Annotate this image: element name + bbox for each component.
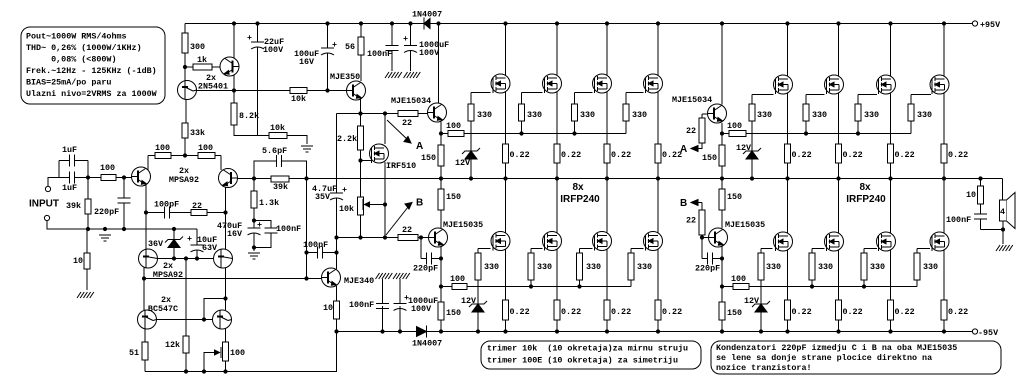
capacitor 1uF top	[62, 145, 77, 167]
mosfet IRFP240 f7	[593, 232, 612, 251]
resistor 0.22 f2	[554, 144, 581, 163]
svg-text:trimer 100E (10 okretaja) za s: trimer 100E (10 okretaja) za simetriju	[487, 355, 678, 365]
capacitor 220pF mje15035-1	[413, 252, 438, 274]
junction irf gate	[358, 158, 362, 162]
wire source f12 / 0.22	[943, 93, 945, 179]
junction bottom rail	[836, 329, 840, 333]
svg-text:330: 330	[484, 262, 499, 272]
capacitor 100pF ltp	[154, 200, 179, 220]
svg-text:10: 10	[966, 190, 976, 200]
svg-text:100: 100	[100, 163, 115, 173]
wire gate lead f15	[864, 248, 877, 250]
wire trimmer100 wiper	[204, 353, 220, 372]
wire drain f9	[787, 24, 789, 77]
wire 22uF column	[257, 24, 259, 136]
resistor 0.22 f11	[888, 144, 915, 163]
wire MJE15035-2 base lead	[702, 237, 708, 239]
zener 36V	[148, 237, 183, 250]
resistor 330 gate f13	[758, 253, 781, 280]
ground 1000uF rail- (above)	[393, 273, 410, 279]
mosfet IRFP240 f5	[491, 232, 510, 251]
junction zener36 bot	[172, 256, 176, 260]
resistor 330 gate f7	[577, 253, 602, 280]
wire zobel link	[981, 229, 1004, 231]
junction B line	[334, 235, 338, 239]
resistor 12k	[165, 336, 189, 353]
svg-text:Frek.~12Hz - 125KHz (-1dB): Frek.~12Hz - 125KHz (-1dB)	[26, 66, 157, 76]
junction 100pF left	[304, 250, 308, 254]
capacitor 100nF fb	[264, 224, 301, 234]
svg-text:150: 150	[446, 192, 461, 202]
wire speaker top	[1002, 179, 1004, 201]
resistor 0.22 f15	[888, 300, 915, 320]
transistor Q3 MPSA92 upper-left	[132, 166, 200, 186]
svg-text:0.22: 0.22	[895, 307, 915, 317]
svg-text:36V: 36V	[148, 239, 164, 249]
wire 8.2k column	[234, 91, 258, 136]
zener 12V ul	[455, 148, 480, 168]
wire MJE15034-1 collector	[438, 24, 440, 104]
svg-text:+: +	[403, 34, 408, 44]
wire source f10 / 0.22	[838, 93, 840, 179]
svg-text:0,08% (<800W): 0,08% (<800W)	[26, 55, 116, 65]
wire drain f13	[787, 179, 789, 234]
wire gnd stub 470uF	[253, 248, 255, 251]
svg-text:330: 330	[917, 110, 932, 120]
transistor Q6 MPSA92 lower-right	[214, 249, 233, 268]
resistor 39k input	[66, 199, 91, 214]
resistor 330 gate f10	[803, 104, 827, 121]
svg-text:0.22: 0.22	[561, 307, 581, 317]
resistor 330 gate f12	[908, 104, 932, 121]
junction output bus	[836, 176, 840, 180]
svg-text:150: 150	[446, 308, 461, 318]
resistor 150 mje15034-1	[421, 145, 444, 166]
resistor 1k	[193, 55, 212, 70]
resistor 330 gate f2	[519, 104, 543, 121]
wire B diagonal	[386, 205, 410, 236]
info box specs	[21, 27, 165, 104]
svg-text:MPSA92: MPSA92	[153, 270, 183, 280]
wire source f16 / 0.22	[943, 250, 945, 332]
svg-text:12V: 12V	[455, 158, 471, 168]
note box capacitors	[711, 341, 1001, 374]
svg-text:100: 100	[155, 143, 170, 153]
wire 1k feed	[185, 66, 220, 68]
wire gnd stub 1000uF rail+	[410, 50, 412, 71]
svg-text:-95V: -95V	[978, 328, 999, 338]
resistor 0.22 f14	[836, 300, 863, 320]
junction 220pF top	[122, 175, 126, 179]
resistor 0.22 f10	[836, 144, 863, 163]
transistor Q7 BC547C left	[138, 295, 179, 329]
junction gate bus ll	[529, 284, 533, 288]
wire gate lead f4	[626, 92, 644, 94]
wire gate res4 col	[625, 93, 627, 134]
wire drain f1	[505, 24, 507, 76]
transistor MJE15035 #2	[709, 220, 766, 247]
resistor 2.2k	[337, 126, 364, 150]
svg-text:nozice tranzistora!: nozice tranzistora!	[716, 363, 812, 373]
svg-text:330: 330	[766, 262, 781, 272]
resistor 330 gate f3	[572, 104, 596, 121]
resistor 22 B-line	[398, 225, 418, 241]
resistor 0.22 f9	[785, 144, 812, 163]
svg-text:0.22: 0.22	[510, 307, 530, 317]
wire LTP load line y155	[148, 155, 221, 157]
wire VAS collector col	[336, 238, 338, 270]
resistor 1.3k	[251, 191, 279, 208]
wire gate bus upper-left	[471, 133, 626, 135]
wire drain f12	[943, 24, 945, 77]
wire 1.3k column	[253, 179, 255, 248]
junction output bus	[656, 176, 660, 180]
junction gate bus ul	[519, 131, 523, 135]
svg-text:220pF: 220pF	[695, 264, 720, 274]
svg-text:se lene sa donje strane plocic: se lene sa donje strane plocice direktno…	[716, 353, 932, 363]
mosfet IRFP240 f2	[543, 74, 562, 93]
svg-text:330: 330	[637, 262, 652, 272]
junction output bus	[469, 176, 473, 180]
wire 10R input col	[86, 229, 88, 290]
wire dash +95V	[968, 23, 972, 25]
wire source f3 / 0.22	[606, 92, 608, 179]
diode 1N4007 rail-	[412, 326, 442, 349]
svg-text:10k: 10k	[270, 123, 285, 133]
svg-text:MJE340: MJE340	[344, 276, 374, 286]
wire 10uF column	[196, 229, 198, 259]
svg-text:0.22: 0.22	[843, 307, 863, 317]
svg-text:1.3k: 1.3k	[259, 198, 279, 208]
transistor Q2 2N5401 lower	[178, 81, 197, 100]
svg-text:100: 100	[727, 121, 742, 131]
capacitor 220pF input	[94, 198, 131, 217]
resistor 0.22 f8	[655, 300, 682, 320]
wire source f13 / 0.22	[787, 250, 789, 332]
svg-text:330: 330	[527, 110, 542, 120]
junction irf source wiper	[383, 202, 387, 206]
junction top rail	[390, 21, 394, 25]
resistor 0.22 f13	[785, 300, 812, 320]
wire bias trimmer column	[360, 161, 362, 238]
wire gate lead f2	[522, 92, 543, 94]
wire output bus	[254, 178, 1003, 180]
svg-text:33k: 33k	[190, 128, 205, 138]
wire IRF510 source col	[384, 162, 386, 238]
wire gate lead f12	[911, 94, 931, 96]
svg-text:1N4007: 1N4007	[412, 339, 442, 349]
svg-text:+95V: +95V	[980, 20, 1001, 30]
wire Q7 emitter col	[144, 328, 146, 372]
resistor 330 gate f15	[861, 253, 885, 280]
wire Q2 collector line y90	[196, 90, 347, 92]
junction output bus	[605, 176, 609, 180]
mosfet IRFP240 f13	[774, 232, 793, 251]
wire input caps top	[59, 160, 88, 162]
transistor MJE340	[322, 268, 375, 287]
resistor 330 gate f6	[528, 253, 552, 280]
svg-text:330: 330	[864, 110, 879, 120]
wire gate lead f3	[575, 92, 593, 94]
resistor 330 gate f5	[475, 253, 499, 280]
junction q6 coll	[223, 296, 227, 300]
svg-text:330: 330	[818, 262, 833, 272]
wire VAS base line	[144, 278, 322, 280]
junction bottom rail	[785, 329, 789, 333]
junction gate bus lr	[862, 284, 866, 288]
junction 10uF bot	[195, 256, 199, 260]
transistor Q8 BC547C right	[213, 310, 232, 329]
wire input terminal stub	[48, 178, 59, 187]
junction bottom rail	[476, 329, 480, 333]
transistor MJE350	[330, 72, 366, 100]
wire IRF510 drain	[384, 114, 386, 145]
svg-text:12V: 12V	[736, 143, 752, 153]
svg-text:100pF: 100pF	[154, 200, 179, 210]
junction vas base	[304, 276, 308, 280]
wire drain f16	[943, 179, 945, 234]
wire MJE15035-2 collector col	[721, 179, 723, 229]
junction B line	[419, 235, 423, 239]
wire 100nF branch top	[254, 221, 271, 229]
svg-text:100V: 100V	[419, 48, 440, 58]
svg-text:+: +	[332, 40, 337, 50]
wire gate lead f5	[478, 248, 491, 250]
wire drain f3	[606, 24, 608, 76]
ground speaker	[996, 245, 1013, 251]
junction 39k gnd	[86, 227, 90, 231]
wire gate res9 col	[751, 95, 753, 134]
junction top rail	[656, 21, 660, 25]
resistor 0.22 f16	[941, 300, 968, 320]
mosfet IRFP240 f6	[543, 232, 562, 251]
wire LTP2 emitter bus	[154, 258, 213, 260]
resistor 22 ltp	[191, 201, 207, 216]
wire Q4 emitter up	[220, 156, 222, 171]
wire gate lead f11	[858, 94, 877, 96]
wire gate lead f10	[806, 94, 825, 96]
svg-text:10k: 10k	[339, 204, 354, 214]
junction output bus	[942, 176, 946, 180]
wire gate link upper-right	[722, 133, 752, 135]
svg-text:330: 330	[580, 110, 595, 120]
svg-text:22: 22	[402, 225, 412, 235]
svg-text:IRFP240: IRFP240	[846, 194, 886, 205]
junction gate bus ul	[572, 131, 576, 135]
wire MJE15035-1 collector col	[440, 179, 442, 229]
node A arrow (driver)	[404, 137, 411, 144]
resistor 330 gate f16	[914, 253, 938, 280]
wire MJE15034-2 collector	[721, 24, 723, 105]
resistor 0.22 f3	[604, 144, 631, 163]
resistor 56	[345, 37, 364, 55]
junction 1k-300	[183, 65, 187, 69]
wire 22-A column	[692, 114, 702, 149]
resistor 10 vas-emitter	[323, 301, 340, 319]
resistor 10k gnd	[269, 123, 287, 139]
wire 100pF link	[307, 252, 337, 254]
junction mje15035-2 em	[720, 284, 724, 288]
wire source f7 / 0.22	[606, 250, 608, 332]
resistor 150 mje15035-1e	[438, 302, 461, 320]
resistor 100 gate-ul	[446, 121, 464, 137]
wire gate res15 col	[863, 249, 865, 287]
wire A diagonal	[387, 120, 409, 141]
wire MJE15035-1 emitter col	[440, 246, 442, 332]
svg-text:100: 100	[731, 274, 746, 284]
junction top rail	[436, 21, 440, 25]
svg-text:8x: 8x	[572, 182, 584, 193]
junction output bus	[785, 176, 789, 180]
svg-text:100nF: 100nF	[946, 215, 971, 225]
svg-text:100V: 100V	[411, 304, 432, 314]
svg-text:A: A	[416, 141, 423, 152]
resistor 0.22 f4	[655, 144, 682, 163]
capacitor 1uF bottom	[62, 171, 77, 193]
junction B line	[700, 235, 704, 239]
wire 100nF branch bottom	[254, 233, 271, 248]
svg-text:330: 330	[477, 110, 492, 120]
svg-text:12k: 12k	[165, 340, 180, 350]
mosfet IRFP240 f11	[877, 75, 896, 94]
svg-text:150: 150	[727, 192, 742, 202]
svg-text:Pout~1000W RMS/4ohms: Pout~1000W RMS/4ohms	[26, 32, 127, 42]
junction 12k bot	[184, 369, 188, 373]
wire gate res5 col	[477, 249, 479, 287]
wire gnd stub 1000uF rail-	[399, 279, 401, 304]
junction vas base left	[142, 276, 146, 280]
svg-text:22: 22	[686, 216, 696, 226]
junction bottom rail	[759, 329, 763, 333]
wire LTP output row	[146, 212, 226, 214]
junction bottom rail left end	[334, 329, 338, 333]
junction top rail	[503, 21, 507, 25]
resistor 300	[182, 33, 205, 53]
resistor 100 gate-lr	[731, 274, 749, 290]
wire source f6 / 0.22	[556, 250, 558, 332]
wire gate bus upper-right	[752, 133, 911, 135]
mosfet IRFP240 f1	[491, 74, 510, 93]
junction output bus	[750, 176, 754, 180]
wire Q2 base drop	[184, 67, 186, 81]
junction top rail	[605, 21, 609, 25]
svg-text:150: 150	[421, 153, 436, 163]
junction bottom rail	[380, 329, 384, 333]
wire drain f6	[556, 179, 558, 234]
junction top rail	[836, 21, 840, 25]
resistor 8.2k	[231, 103, 259, 125]
svg-text:12V: 12V	[744, 296, 760, 306]
ground 470uF	[248, 253, 260, 259]
wire rail end down to 300	[184, 24, 186, 68]
mosfet IRFP240 f16	[930, 232, 949, 251]
junction q8 base	[202, 317, 206, 321]
svg-text:0.22: 0.22	[611, 307, 631, 317]
capacitor 4.7uF 35V	[312, 184, 347, 202]
svg-text:0.22: 0.22	[948, 307, 968, 317]
wire 4.7uF column	[336, 114, 338, 238]
svg-text:MPSA92: MPSA92	[169, 175, 199, 185]
ground 1000uF rail+	[404, 72, 421, 78]
svg-text:12V: 12V	[461, 296, 477, 306]
junction bottom rail	[888, 329, 892, 333]
capacitor 470uF 16V	[217, 220, 262, 239]
resistor 330 gate f9	[749, 104, 772, 121]
wire 10k wiper	[365, 204, 386, 206]
trimmer 100 wiper head	[215, 350, 220, 355]
svg-text:0.22: 0.22	[792, 150, 812, 160]
junction top rail	[232, 21, 236, 25]
svg-text:1k: 1k	[197, 55, 207, 65]
svg-text:IRF510: IRF510	[386, 161, 416, 171]
junction output bus	[439, 176, 443, 180]
node B arrow (driver)	[405, 203, 412, 210]
junction gate bus ur	[804, 131, 808, 135]
svg-text:MJE15035: MJE15035	[725, 220, 765, 230]
svg-text:330: 330	[537, 262, 552, 272]
resistor 100 ltp-l	[155, 143, 171, 159]
wire Q3 collector chain	[145, 184, 147, 250]
wire MJE15034-2 emitter col	[721, 123, 723, 179]
wire BC547 link y319	[156, 319, 212, 321]
svg-text:+: +	[187, 234, 192, 244]
svg-text:51: 51	[129, 348, 139, 358]
svg-text:63V: 63V	[202, 243, 218, 253]
wire top stub 100nF rail+	[391, 24, 393, 47]
wire gate link lower-right	[722, 286, 761, 288]
svg-text:0.22: 0.22	[948, 150, 968, 160]
junction top rail	[359, 21, 363, 25]
junction gate bus ur	[856, 131, 860, 135]
wire 220pF-2 left col	[701, 238, 703, 259]
wire bottom stub 1000uF rail-	[399, 306, 401, 332]
mosfet IRFP240 f15	[877, 232, 896, 251]
junction 100pF right	[334, 250, 338, 254]
wire input caps left join	[58, 161, 60, 178]
resistor 330 gate f8	[628, 253, 652, 280]
junction mje15034-2 em	[720, 131, 724, 135]
svg-text:39k: 39k	[273, 182, 288, 192]
mosfet IRFP240 f4	[644, 74, 663, 93]
wire 100uF column	[327, 24, 329, 91]
wire 22-B col v	[701, 203, 703, 238]
capacitor 100nF zobel	[946, 214, 988, 225]
mosfet IRFP240 f8	[644, 232, 663, 251]
junction gnd bus	[103, 227, 107, 231]
wire MJE340 emitter col	[336, 286, 338, 332]
wire source f4 / 0.22	[657, 92, 659, 179]
svg-text:THD~ 0,26% (1000W/1KHz): THD~ 0,26% (1000W/1KHz)	[26, 43, 142, 53]
resistor 150 mje15034-2	[702, 145, 725, 166]
junction ltp load	[183, 153, 187, 157]
wire input ground bus	[47, 221, 197, 230]
svg-text:35V: 35V	[315, 192, 331, 202]
svg-text:1uF: 1uF	[62, 183, 77, 193]
resistor 330 gate f1	[468, 104, 492, 121]
svg-text:22: 22	[402, 118, 412, 128]
junction output bus	[978, 176, 982, 180]
mosfet IRFP240 f9	[774, 75, 793, 94]
wire source f2 / 0.22	[556, 92, 558, 179]
svg-text:330: 330	[812, 110, 827, 120]
svg-text:16V: 16V	[299, 57, 315, 67]
resistor 0.22 f5	[503, 300, 530, 320]
junction output bus	[555, 176, 559, 180]
svg-text:Ulazni nivo=2VRMS za 1000W: Ulazni nivo=2VRMS za 1000W	[26, 89, 158, 99]
junction trim100	[223, 369, 227, 373]
capacitor 100nF rail+	[367, 46, 399, 60]
transistor MJE15034 #1	[391, 96, 447, 122]
